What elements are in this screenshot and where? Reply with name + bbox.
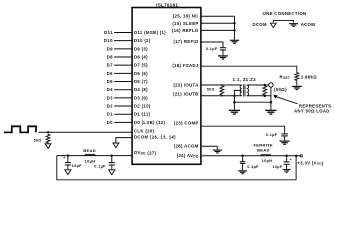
svg-text:D3 (9): D3 (9) xyxy=(134,95,148,100)
svg-text:D5: D5 xyxy=(107,79,113,84)
svg-text:DCOM: DCOM xyxy=(252,22,267,27)
svg-text:+: + xyxy=(63,156,65,160)
svg-text:D8 (4): D8 (4) xyxy=(134,55,148,60)
svg-text:50Ω: 50Ω xyxy=(207,88,215,92)
svg-text:D1 (11): D1 (11) xyxy=(134,112,151,117)
svg-text:(24) AVDD: (24) AVDD xyxy=(177,153,199,159)
svg-text:D7: D7 xyxy=(107,63,113,68)
svg-text:(16) REFLO: (16) REFLO xyxy=(172,28,199,33)
svg-text:DCOM (26, 13, 14): DCOM (26, 13, 14) xyxy=(134,134,176,139)
svg-text:D4: D4 xyxy=(107,87,113,92)
svg-text:D7 (5): D7 (5) xyxy=(134,63,148,68)
svg-text:1:1, Z1:Z2: 1:1, Z1:Z2 xyxy=(233,77,257,82)
svg-text:(23) COMP: (23) COMP xyxy=(174,120,199,125)
svg-text:0.1µF: 0.1µF xyxy=(206,46,218,51)
svg-text:10µH: 10µH xyxy=(262,158,273,163)
svg-text:D10: D10 xyxy=(104,38,113,43)
svg-text:D2 (10): D2 (10) xyxy=(134,104,151,109)
svg-text:(22) IOUTA: (22) IOUTA xyxy=(173,83,198,88)
svg-text:BEAD: BEAD xyxy=(257,147,270,152)
svg-text:0.1µF: 0.1µF xyxy=(247,164,259,169)
svg-text:(25, 19) NC: (25, 19) NC xyxy=(173,14,199,19)
svg-text:10µF: 10µF xyxy=(72,163,83,168)
svg-text:D4 (8): D4 (8) xyxy=(134,87,148,92)
svg-text:(18) FSADJ: (18) FSADJ xyxy=(172,63,199,68)
svg-text:1.96kΩ: 1.96kΩ xyxy=(301,74,317,79)
svg-text:+: + xyxy=(290,158,292,162)
svg-text:(50Ω): (50Ω) xyxy=(274,87,287,92)
svg-text:D11: D11 xyxy=(104,30,113,35)
svg-text:D9 (3): D9 (3) xyxy=(134,46,148,51)
svg-text:ONE CONNECTION: ONE CONNECTION xyxy=(262,11,306,16)
svg-text:ANY 50Ω LOAD: ANY 50Ω LOAD xyxy=(294,108,330,113)
svg-text:D10 (2): D10 (2) xyxy=(134,38,151,43)
svg-text:DVDD (27): DVDD (27) xyxy=(134,150,157,156)
svg-text:ACOM: ACOM xyxy=(301,22,316,27)
svg-text:D3: D3 xyxy=(107,95,113,100)
svg-text:(21) IOUTB: (21) IOUTB xyxy=(173,91,199,96)
svg-text:D5 (7): D5 (7) xyxy=(134,79,148,84)
svg-text:D0: D0 xyxy=(107,120,113,125)
svg-text:(15) SLEEP: (15) SLEEP xyxy=(172,21,198,26)
svg-text:0.1µF: 0.1µF xyxy=(94,164,106,169)
svg-text:ISL76161: ISL76161 xyxy=(156,2,178,7)
svg-text:RSET: RSET xyxy=(280,74,291,80)
svg-text:50Ω: 50Ω xyxy=(34,139,42,143)
svg-text:D0 (LSB) (12): D0 (LSB) (12) xyxy=(134,120,166,125)
svg-text:CLK (20): CLK (20) xyxy=(134,128,155,133)
svg-text:+3.3V (VDD): +3.3V (VDD) xyxy=(297,160,323,165)
svg-text:D1: D1 xyxy=(107,112,113,117)
svg-text:(17) REFIO: (17) REFIO xyxy=(173,39,199,44)
svg-text:D6: D6 xyxy=(107,71,113,76)
svg-text:D8: D8 xyxy=(107,55,113,60)
svg-text:D9: D9 xyxy=(107,46,113,51)
svg-text:10µF: 10µF xyxy=(272,164,283,169)
svg-text:(28) ACOM: (28) ACOM xyxy=(174,144,199,149)
svg-text:D2: D2 xyxy=(107,104,113,109)
svg-text:D11 (MSB) (1): D11 (MSB) (1) xyxy=(134,30,166,35)
svg-text:BEAD: BEAD xyxy=(83,148,96,153)
svg-text:0.1µF: 0.1µF xyxy=(266,132,278,137)
svg-text:D6 (6): D6 (6) xyxy=(134,71,148,76)
